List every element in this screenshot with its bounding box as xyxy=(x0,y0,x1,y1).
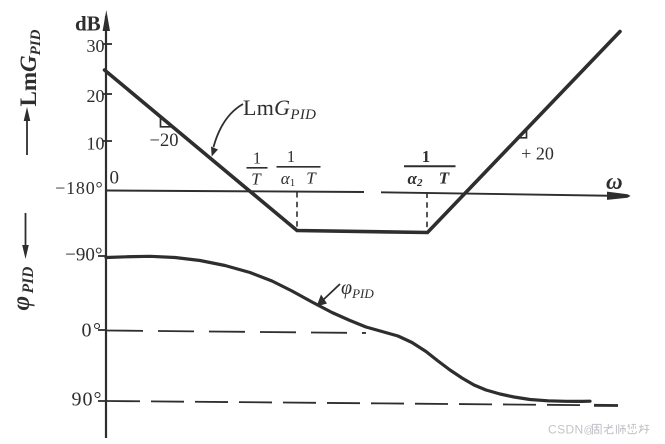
tick 10 dB xyxy=(103,140,112,142)
svg-text:1: 1 xyxy=(287,147,295,166)
-20 slope marker triangle xyxy=(161,118,173,127)
svg-text:T: T xyxy=(251,170,262,189)
svg-text:dB: dB xyxy=(75,12,101,36)
svg-text:1: 1 xyxy=(253,149,261,168)
tick -90 deg xyxy=(98,255,106,257)
tick 20 dB xyxy=(103,93,112,95)
tick 30 dB xyxy=(103,43,112,45)
down arrow above phi_PID title xyxy=(25,213,27,250)
svg-text:10: 10 xyxy=(87,134,105,154)
dashed vertical at 1/(alpha2 T) xyxy=(426,193,428,233)
dashed vertical at 1/(alpha1 T) xyxy=(296,192,298,229)
y-axis (dB / phase axis) xyxy=(105,16,107,438)
svg-text:−90°: −90° xyxy=(65,245,102,266)
zhou xyxy=(592,424,601,434)
watermark CJK glyphs xyxy=(592,424,649,435)
svg-text:ω: ω xyxy=(606,169,623,194)
y-axis arrowhead xyxy=(103,10,110,31)
up arrow under LmG_PID title xyxy=(26,115,28,155)
arrow from phi_PID label to curve xyxy=(322,284,340,301)
svg-text:−20: −20 xyxy=(150,131,179,151)
x-axis right segment xyxy=(381,192,626,196)
svg-text:30: 30 xyxy=(87,36,105,56)
magnitude curve LmG_PID xyxy=(105,32,621,233)
x-axis arrowhead xyxy=(607,192,631,200)
arrow from LmG_PID label to curve xyxy=(214,104,244,147)
svg-text:90°: 90° xyxy=(72,389,103,411)
tick 90 deg xyxy=(98,400,106,402)
svg-text:+ 20: + 20 xyxy=(521,144,554,164)
svg-text:−180°: −180° xyxy=(55,178,103,198)
lao xyxy=(604,424,613,434)
svg-text:0: 0 xyxy=(110,168,120,189)
shi xyxy=(616,424,625,434)
dashed 90 deg line xyxy=(107,401,590,405)
hao xyxy=(639,424,649,433)
svg-text:CSDN: CSDN xyxy=(548,423,584,437)
tick 0 deg xyxy=(98,329,106,331)
nin xyxy=(628,424,637,434)
phase curve phi_PID xyxy=(106,256,590,401)
dashed 0 deg line xyxy=(107,331,366,334)
rotated LmG_PID axis title xyxy=(16,29,44,106)
svg-text:0°: 0° xyxy=(82,320,103,342)
svg-text:20: 20 xyxy=(87,86,105,106)
svg-text:T: T xyxy=(439,169,450,188)
thick final dash of 90 deg line xyxy=(594,404,618,407)
x-axis left segment xyxy=(106,191,364,193)
rotated phi_PID axis title xyxy=(8,267,37,311)
+20 slope marker triangle xyxy=(519,129,527,138)
svg-text:1: 1 xyxy=(422,147,430,166)
svg-text:T: T xyxy=(306,169,317,188)
